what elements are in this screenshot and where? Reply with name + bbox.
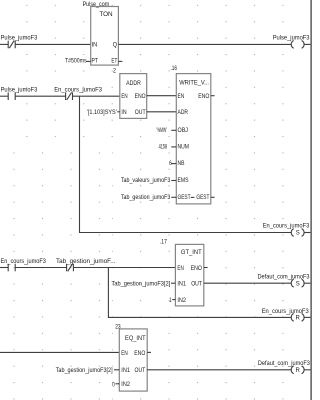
- svg-text:En_cours_jumoF3: En_cours_jumoF3: [262, 309, 310, 315]
- value '%MW' on OBJ: [157, 128, 177, 134]
- svg-text:IN2: IN2: [121, 382, 130, 388]
- svg-text:OUT: OUT: [135, 368, 146, 374]
- svg-text:ENO: ENO: [134, 351, 145, 357]
- svg-text:En_cours_jumoF3: En_cours_jumoF3: [263, 224, 310, 230]
- svg-text:OUT: OUT: [191, 282, 202, 288]
- value T#500ms on PT: [65, 59, 91, 65]
- svg-text:ADDR: ADDR: [126, 81, 141, 87]
- svg-text:OBJ: OBJ: [178, 128, 189, 134]
- svg-text:EN: EN: [121, 351, 127, 357]
- wire GT_INT OUT to set coil: [204, 282, 292, 284]
- svg-text:ET: ET: [111, 59, 117, 65]
- GEST inout dash: [191, 196, 195, 198]
- ENO stub EQ_INT: [147, 351, 151, 353]
- wire TON Q to coil: [118, 43, 291, 45]
- svg-text:Tab_gestion_jumoF3[2]: Tab_gestion_jumoF3[2]: [56, 368, 113, 374]
- svg-text:EQ_INT: EQ_INT: [125, 336, 146, 342]
- svg-text:.16: .16: [171, 66, 178, 72]
- branch wire down to reset coil: [108, 268, 291, 318]
- coil Pulse_jumoF3: [273, 35, 310, 48]
- wire ADDR ENO to WRITE_VAR EN: [147, 95, 177, 97]
- svg-text:Pulse_com: Pulse_com: [83, 2, 110, 8]
- svg-text:GEST: GEST: [178, 195, 191, 201]
- svg-text:S: S: [296, 281, 300, 287]
- comparator EQ_INT: [119, 329, 147, 391]
- svg-text:'[1.103]SYS': '[1.103]SYS': [87, 110, 117, 116]
- value 0 on IN2: [112, 383, 119, 389]
- wire contact to TON IN: [15, 43, 91, 45]
- coil reset En_cours_jumoF3: [262, 309, 310, 322]
- wire rung3 left stub: [0, 267, 8, 269]
- value 1 on IN2: [169, 298, 175, 304]
- value Tab_gestion_jumoF3[2] on IN1: [112, 281, 176, 287]
- GEST output stub: [211, 196, 215, 198]
- comparator GT_INT: [175, 244, 203, 306]
- contact Pulse_jumoF3 (NC): [1, 35, 38, 48]
- svg-text:Tab_gestion_jumoF3: Tab_gestion_jumoF3: [121, 195, 171, 201]
- value Tab_gestion_jumoF3 on GEST: [121, 195, 176, 201]
- coil reset Defaut_com_jumoF3: [258, 361, 311, 374]
- contact En_cours_jumoF3 (NC): [54, 87, 102, 100]
- svg-text:Tab_gestion_jumoF...: Tab_gestion_jumoF...: [56, 259, 116, 265]
- wire set coil to rail: [304, 232, 310, 234]
- svg-text:IN: IN: [92, 42, 98, 48]
- svg-text:En_cours_jumoF3: En_cours_jumoF3: [1, 259, 47, 265]
- svg-text:Pulse_jumoF3: Pulse_jumoF3: [1, 87, 38, 93]
- value '[1.103]SYS' on IN: [87, 110, 120, 116]
- svg-text:4158: 4158: [159, 144, 168, 150]
- wire reset coil to rail: [304, 316, 310, 318]
- svg-text:ENO: ENO: [191, 266, 203, 272]
- wire rung2 left stub: [0, 95, 8, 97]
- function WRITE_VAR: [176, 74, 211, 204]
- svg-text:S: S: [296, 231, 300, 237]
- svg-text:IN1: IN1: [121, 368, 130, 374]
- svg-text:TON: TON: [99, 12, 112, 18]
- ENO output stub: [211, 95, 215, 97]
- svg-text:NUM: NUM: [178, 144, 190, 150]
- wire EQ_INT OUT to reset coil: [147, 369, 291, 371]
- wire ADDR OUT to WRITE_VAR ADR: [147, 111, 177, 113]
- svg-text:.17: .17: [160, 240, 168, 246]
- svg-text:En_cours_jumoF3: En_cours_jumoF3: [54, 87, 102, 93]
- svg-text:IN: IN: [121, 110, 126, 116]
- svg-text:ENO: ENO: [198, 94, 209, 100]
- wire rung4 to EQ_INT EN: [0, 351, 119, 353]
- svg-text:EMS: EMS: [178, 178, 189, 184]
- svg-text:PT: PT: [92, 59, 99, 65]
- svg-text:EN: EN: [121, 94, 127, 100]
- ET output stub: [118, 60, 122, 62]
- ENO stub GT_INT: [204, 267, 208, 269]
- right power rail: [310, 0, 312, 400]
- wire contact to GT_INT EN: [73, 267, 175, 269]
- svg-text:IN1: IN1: [177, 282, 186, 288]
- svg-text:ENO: ENO: [135, 94, 146, 100]
- svg-text:OUT: OUT: [135, 110, 146, 116]
- value Tab_valeurs_jumoF3 on EMS: [121, 178, 176, 184]
- svg-text:WRITE_V...: WRITE_V...: [179, 81, 209, 87]
- svg-text:T#500ms: T#500ms: [65, 59, 87, 65]
- timer TON Pulse_com: [83, 2, 119, 65]
- contact Tab_gestion_jumoF... (NC): [56, 259, 116, 271]
- svg-text:GEST: GEST: [196, 195, 209, 201]
- value Tab_gestion_jumoF3[2] on IN1: [56, 368, 120, 374]
- svg-text:Tab_gestion_jumoF3[2]: Tab_gestion_jumoF3[2]: [112, 281, 171, 287]
- svg-text:Pulse_jumoF3: Pulse_jumoF3: [273, 35, 310, 41]
- svg-text:EN: EN: [178, 94, 185, 100]
- svg-text:ADR: ADR: [178, 110, 189, 116]
- contact En_cours_jumoF3 (NO): [1, 259, 47, 271]
- svg-text:Tab_valeurs_jumoF3: Tab_valeurs_jumoF3: [121, 178, 171, 184]
- wire between contacts rung3: [15, 267, 66, 269]
- svg-text:EN: EN: [177, 266, 183, 272]
- svg-text:Pulse_jumoF3: Pulse_jumoF3: [1, 35, 38, 41]
- svg-text:Defaut_com_jumoF3: Defaut_com_jumoF3: [258, 361, 311, 367]
- svg-text:Defaut_com_jumoF3: Defaut_com_jumoF3: [258, 275, 311, 281]
- value 4158 on NUM: [159, 144, 177, 150]
- coil set En_cours_jumoF3: [263, 224, 310, 237]
- svg-text:R: R: [296, 368, 301, 374]
- svg-text:IN2: IN2: [177, 298, 186, 304]
- value 6 on NB: [169, 161, 176, 167]
- wire set coil to rail: [304, 282, 310, 284]
- coil set Defaut_com_jumoF3: [258, 275, 311, 288]
- wire reset coil to rail: [304, 369, 310, 371]
- function ADDR: [120, 74, 147, 119]
- wire between contacts: [15, 95, 65, 97]
- svg-text:'%MW': '%MW': [157, 128, 167, 134]
- svg-text:R: R: [296, 316, 301, 322]
- svg-text:GT_INT: GT_INT: [181, 250, 202, 256]
- svg-text:Q: Q: [113, 42, 118, 48]
- contact Pulse_jumoF3 (NO): [1, 87, 38, 100]
- svg-text:NB: NB: [178, 161, 185, 167]
- branch wire down to set coil: [80, 96, 292, 232]
- wire rung1 left stub: [0, 43, 8, 45]
- wire coil to rail: [304, 43, 310, 45]
- wire contact to ADDR EN: [73, 95, 120, 97]
